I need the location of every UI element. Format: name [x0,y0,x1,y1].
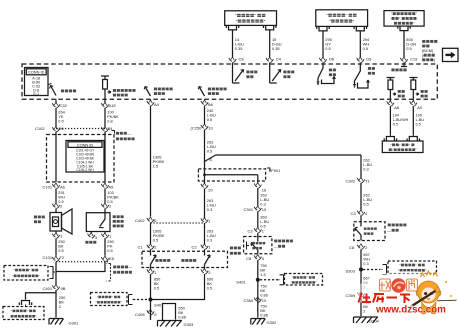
wire4 label 263 L-BU 0.3 [207,198,216,212]
door lock switch box (right door) [244,237,272,254]
page connector into door box (lock) [384,137,396,142]
trunk box exit pin 2 [201,269,208,274]
page connector into door box (unlock) [407,137,419,142]
wire from box1 right to BCM [269,30,271,57]
svg-text:C408: C408 [135,312,145,317]
svg-text:E-1: E-1 [33,92,39,96]
svg-text:G303: G303 [184,322,195,327]
svg-text:9B: 9B [61,286,66,291]
C102 dotted line [56,128,105,130]
watermark outline char 找 [380,279,391,291]
svg-text:CONN ID: CONN ID [77,142,94,147]
box 车门 门锁/弹簧闩示意图 [382,141,423,153]
splice S401 (wire5) [256,278,260,282]
wire6 label 450 BK 2 [363,300,370,314]
svg-text:0.5: 0.5 [207,286,212,291]
junction node 8 with rail [205,155,216,162]
door lock switch (inside BCM, x323) [317,64,336,85]
svg-text:0.86: 0.86 [178,315,186,320]
chevron on wire1 at C102 [52,126,59,131]
svg-text:”: ” [306,276,307,280]
svg-text:S303: S303 [346,269,356,274]
svg-text:0.5: 0.5 [363,202,368,207]
trunk box labels [155,247,240,262]
svg-text:C1: C1 [138,245,144,250]
wire5 exit SP001 pin 16 [254,183,261,188]
svg-text:—: — [274,244,278,249]
fuse symbol (inside BCM, x105) [101,76,136,99]
svg-text:D5: D5 [366,57,372,62]
svg-text:A4: A4 [154,102,160,107]
wire from box2 right to BCM [359,31,361,57]
ground G303 [158,321,195,328]
CONN ID table (fuse box) [66,141,104,173]
unlock wire from BCM pin A9 [412,99,414,101]
svg-text:F2: F2 [60,255,65,260]
svg-text:A6: A6 [60,184,66,189]
wire label 15 D-BU 0.35 [272,37,282,51]
svg-text:0.5: 0.5 [406,46,411,51]
connector A15 on wire2 [101,102,108,107]
svg-text:10: 10 [262,298,267,303]
svg-text:“: “ [96,301,97,305]
watermark white haze [356,271,460,315]
turn signal switch right (inside BCM, x269.7) [270,64,295,83]
svg-text:1.5: 1.5 [260,272,265,277]
watermark group [356,271,460,316]
connector D5 [357,57,364,62]
svg-text:“: “ [292,276,293,280]
page connector under box1 left [226,25,238,30]
wire5 from SP001 [257,175,259,183]
svg-text:E8: E8 [109,256,115,261]
svg-text:C402: C402 [135,218,145,223]
connector C8 pin 5 [254,255,261,260]
BCM label text [422,40,438,62]
branch to power distribution ref [26,293,57,300]
wire2 label 103 PK/BK 0.5 [107,190,119,204]
splice S303 [359,268,363,272]
inline connector C101 F2 labels [43,255,115,261]
svg-text:B6: B6 [208,102,214,107]
svg-text:(BCM): (BCM) [422,48,434,53]
wire2 label 100 PK/BK 0.8 [107,110,119,124]
lock wire from BCM pin A8 [389,99,391,101]
wire4 label 263 L-BU 0.3 below C402 [207,229,216,243]
svg-text:0.5: 0.5 [58,119,63,124]
svg-text:0.35: 0.35 [272,46,280,51]
wire1 label 250 BK 0.5 [58,239,65,253]
svg-text:(C250: (C250 [191,126,203,131]
ref box 线路系统 接地分布示意图 (left) [4,266,55,281]
wire5 label 750 BK 0.86 [260,284,268,298]
wire from box3 to BCM [403,31,405,57]
svg-text:A8: A8 [394,105,400,110]
svg-text:0.5: 0.5 [58,248,63,253]
wire1 through fuse box [55,135,57,182]
relay pin 3 (unused) [88,233,95,238]
svg-text:C301: C301 [244,207,254,212]
svg-text:1.5: 1.5 [153,164,158,169]
box "照明系统 车外灯示意图" [225,11,277,26]
relay 发动机防盗系统开关 [86,213,123,232]
svg-text:0.86: 0.86 [260,313,268,318]
wire1 label 250 BK 2 [59,295,66,309]
svg-text:“: “ [97,295,98,299]
turn signal switch left (inside BCM, x232.5) [233,64,258,83]
chevron wire3 at C402 pin 6 [147,217,154,222]
svg-text:0.5: 0.5 [207,149,212,154]
svg-text:C8: C8 [246,256,252,261]
svg-text:G302: G302 [267,320,278,325]
wire2 BCM pin to C102 [104,99,106,102]
ref box 线路系统 接地分布示意图 (mid) [91,293,128,306]
svg-text:20: 20 [208,188,213,193]
door lock switch glyph (right) [251,237,258,254]
connector C101 A6 on wire1 [52,183,59,188]
relay pin 1 connector [101,233,108,238]
svg-text:C359: C359 [346,293,356,298]
trunk switch pin C1 2 [147,244,154,249]
wire5 label 363 L-BU 0.5 [260,215,269,229]
wire4 into splice pack [204,162,206,184]
serial data stub (inside BCM, x404) [391,64,407,71]
svg-text:C8: C8 [349,245,355,250]
svg-text:0.3: 0.3 [363,261,368,266]
dashed ref line to S401 [133,299,147,301]
svg-text:0.5: 0.5 [207,117,212,122]
svg-text:“: “ [290,281,291,285]
unlock driver resistor (inside BCM, x413.3) [410,78,428,100]
wire2 label 250 PK 0.5 [107,239,114,253]
svg-text:10: 10 [262,207,267,212]
splice link inside SP001 [205,174,258,176]
switch 驾驶员门开关 (inside BCM, x204.5) [198,87,226,97]
wire3 label 850 BK 0.5 [154,277,161,291]
svg-text:C101: C101 [43,255,53,260]
svg-text:”: ” [315,281,316,285]
wire label 14 L-BU 0.35 [235,37,244,51]
ref box 线路系统 接地分布示意图 (wire5) [285,274,323,286]
BCM dashed box [22,64,437,99]
CONN ID table (BCM) [25,68,49,97]
wire label 295 GY 0.5 [325,37,332,51]
wire1 label 251 WH 0.5 [58,190,65,204]
svg-text:G301: G301 [69,321,80,326]
svg-text:C101: C101 [43,184,53,189]
chevron on wire2 at C102, pin B4 [101,126,108,131]
svg-text:0.5: 0.5 [154,286,159,291]
wire label 805 D-GN 0.5 [406,37,416,51]
svg-text:T1: T1 [365,179,370,184]
svg-text:0.5: 0.5 [363,46,368,51]
svg-text:0.5: 0.5 [153,238,158,243]
svg-text:C302: C302 [346,179,356,184]
connector C408 pin 9 [147,309,154,314]
dashed ref line from S303 [363,269,381,271]
horizontal rail wire [216,154,361,156]
connector C32 on wire1 [52,102,59,107]
wire5 label 363 L-BU 0.3 [260,193,269,207]
wire3 label 1505 PK/BK 0.5 [153,229,165,243]
svg-text:C3: C3 [351,211,357,216]
page connector on branch [19,301,31,306]
svg-text:10: 10 [208,126,213,131]
door lock switch box (left door) [354,222,385,241]
svg-text:S401: S401 [236,279,246,284]
wire6 label 262 L-BU 0.3 [363,158,372,172]
svg-text:”: ” [121,301,122,305]
wire5 label 750 BK 0.86 lower [260,304,268,318]
svg-text:0.8: 0.8 [107,119,112,124]
watermark mascot [409,271,457,314]
door lock switch glyph (left) [355,222,361,241]
label 接地位置—发动机舱内 with bracket [107,264,133,282]
svg-text:—: — [128,265,132,270]
svg-text:”: ” [112,295,113,299]
svg-text:0.5: 0.5 [325,46,330,51]
svg-text:C360: C360 [244,298,254,303]
svg-text:195: 195 [416,114,422,118]
relay pin 2 connector [101,203,108,208]
watermark outline char 片 [407,279,418,291]
watermark text 维库一下 [359,293,411,303]
wire6 from rail down [360,155,362,178]
svg-text:0.5: 0.5 [393,123,398,127]
splice pack SP001 dashed box [198,169,265,181]
svg-text:A5: A5 [109,184,115,189]
chevron wire1 at C101 [52,256,59,261]
fuse box dashed outline [47,135,115,183]
svg-text:0.35: 0.35 [235,46,243,51]
connector C360 pin 10 [254,297,261,302]
wire label 294 WH 0.5 [363,37,370,51]
svg-text:C2: C2 [192,245,198,250]
connector C3 pin 4 [357,210,364,215]
ref box 线路系统 接地分布示意图 (wire6) [388,261,437,274]
box "数据链路通信 串行数据示意图" [384,11,424,27]
connector C401 9B on wire1 [52,285,59,290]
wire3 label 1305 PK/BK 1.5 [153,155,165,169]
wire6 label 567 WH 0.3 [363,252,370,266]
wire4 label 650 BK 0.5 [207,277,214,291]
svg-text:www.dzsc.com: www.dzsc.com [375,305,446,316]
svg-text:0.5: 0.5 [416,123,421,127]
connector C8 [229,57,236,62]
connector C302 pin T1 [357,177,364,182]
wire4 BCM pin B6 [204,99,206,100]
svg-text:0.5: 0.5 [107,248,112,253]
svg-text:—: — [387,228,391,233]
svg-text:0.86: 0.86 [260,293,268,298]
svg-text:D6: D6 [329,57,335,62]
svg-text:2: 2 [363,309,365,314]
switch 行李箱盖释放开关 (inside BCM, x150.5) [144,87,172,97]
wire1 BCM pin to C102 [55,99,57,102]
svg-text:C32: C32 [60,103,68,108]
chevron wire2 at C101 [101,256,108,261]
svg-text:G304: G304 [369,319,380,324]
inline connector C250 pin 10 [201,124,208,129]
arrow page link box [443,48,459,61]
wire6 label 262 L-BU 0.5 [363,193,372,207]
wire2 joins wire1 [56,262,105,272]
connector A5 on wire2 [101,183,108,188]
lock driver resistor (inside BCM, x390.4) [387,78,405,100]
wire5 label 750 BK 1.5 [260,263,267,277]
fuse box label [116,131,135,140]
ref box 电源系统 配电分布示意图 [3,307,44,320]
box "车门系统 门锁示意图" [316,10,368,27]
svg-text:C19: C19 [410,57,418,62]
wire1 label 264 YE 0.5 [58,110,65,124]
connector C3 pin 1 [254,227,261,232]
svg-text:C106-2 WH: C106-2 WH [76,168,94,172]
inline connector C102 labels [35,126,64,131]
svg-text:SP001: SP001 [269,168,282,173]
horn pin 1 connector [52,233,59,238]
wire from box2 left to BCM [322,31,324,57]
ground G301 (right) [354,317,380,324]
horn pin 2 connector [52,203,59,208]
page connector under box2 left [317,26,329,31]
svg-text:A15: A15 [109,103,117,108]
wire3 BCM pin A4 [150,99,152,100]
trunk switch glyph 1 [151,249,157,269]
wire4 label 240 L-BU 0.5 [207,108,216,122]
svg-text:C8: C8 [239,57,245,62]
connector C8 pin 2 [357,244,364,249]
wire from box1 left to BCM [232,30,234,57]
ground G302 [251,319,266,325]
svg-text:—: — [127,131,131,136]
svg-text:C4: C4 [276,57,282,62]
svg-text:C401: C401 [43,286,53,291]
wire6 label 667 BK 2 [363,276,370,290]
svg-text:CONN ID: CONN ID [28,70,45,75]
svg-text:C3: C3 [248,228,254,233]
splice S401 [149,298,153,302]
wire 550 BK to ground G303 [163,304,176,321]
trunk release switch dashed box [142,251,228,267]
connector D6 [319,57,326,62]
C101 dotted line [56,261,108,263]
svg-text:0.3: 0.3 [260,202,265,207]
svg-text:0.3: 0.3 [207,238,212,243]
ground G301 [49,319,64,325]
page connector under box2 right [354,26,366,31]
svg-text:0.3: 0.3 [363,167,368,172]
wire4 label 263 L-BU 0.5 [207,140,216,154]
door monitor switch (inside BCM, x360.3) [353,64,375,88]
chevron wire4 at C402 pin 1 [201,218,208,223]
svg-text:194: 194 [393,114,399,118]
page connector under box1 right [264,25,276,30]
dashed ref line from S401 [260,279,279,281]
page connector under box3 [398,26,410,31]
svg-text:2: 2 [59,304,61,309]
svg-text:L-BU/WH: L-BU/WH [393,118,409,122]
connector C359 pin 1 [357,292,364,297]
svg-text:0.3: 0.3 [207,207,212,212]
trunk switch glyph 2 [205,249,211,269]
switch 警报控制 (inside BCM) [48,83,76,95]
inline connector C402 dotted line [151,222,205,224]
watermark red circle logo [391,278,405,292]
wire4 below SP001 pin 20 [201,183,208,188]
svg-text:L-BU: L-BU [416,118,425,122]
trunk box exit pin 1 [147,269,154,274]
trunk switch pin C2 1 [201,244,208,249]
svg-text:A9: A9 [417,105,423,110]
wire2 through fuse box [104,135,106,182]
svg-text:C102: C102 [35,126,45,131]
connector C301 pin 10 [254,206,261,211]
connector C19 [400,57,407,62]
alarm horn 防盗警报器 [34,209,72,234]
connector C4 [266,57,273,62]
